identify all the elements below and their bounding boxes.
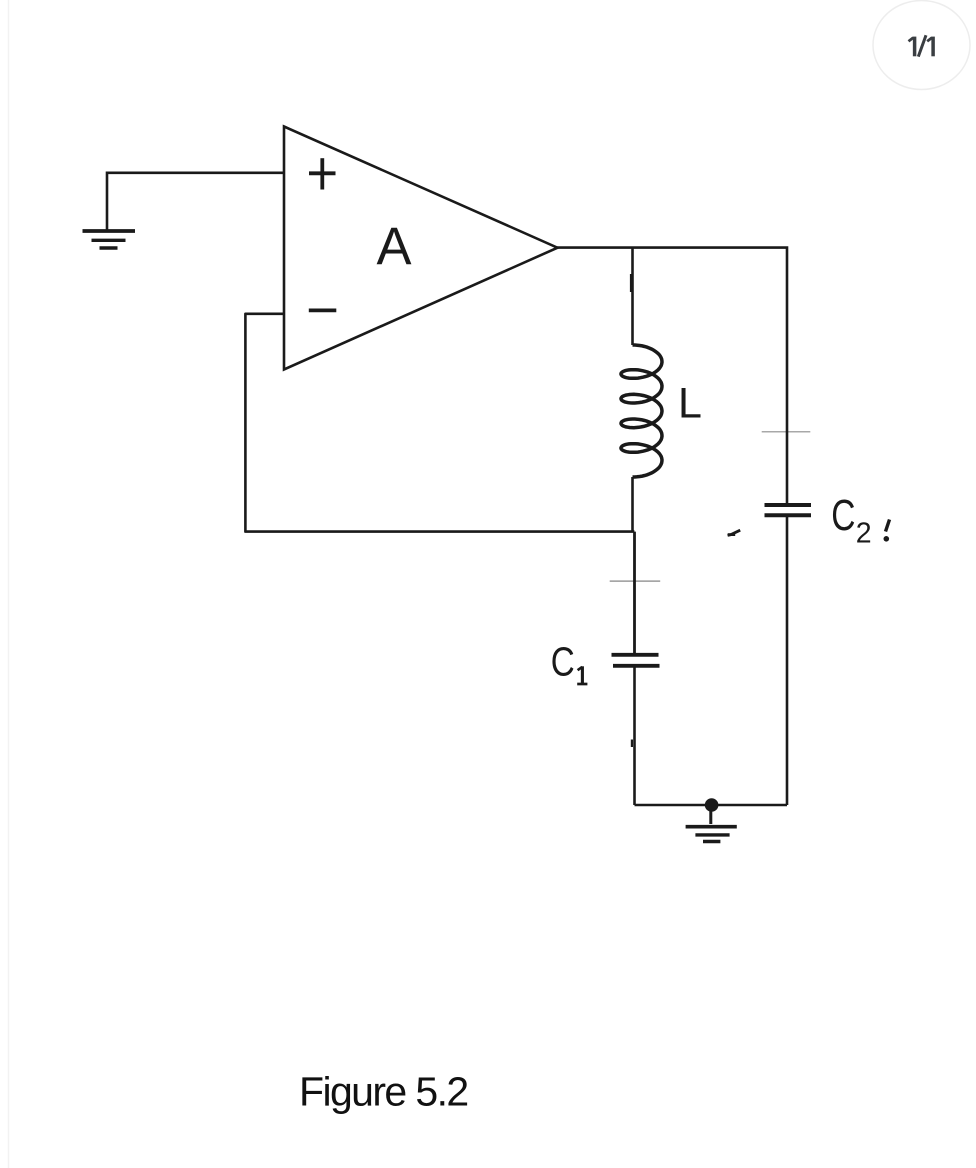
wire: output down to inductor — [631, 248, 634, 345]
wire: C2 bottom leg — [786, 516, 789, 806]
wire: - input + feedback left/bottom — [245, 314, 634, 532]
ground GND2 (bottom) — [686, 827, 737, 842]
inductor L coil — [621, 345, 662, 477]
scan artifact exclamation — [886, 520, 890, 532]
wire: output to top-right corner — [556, 248, 787, 505]
page counter badge 1/1 — [873, 1, 970, 90]
wire: + input horizontal — [107, 172, 284, 230]
scan artifact tick — [728, 530, 741, 535]
faint plate artifact above C1 — [610, 580, 661, 582]
faint plate artifact above C2 — [762, 431, 811, 433]
page edge shading — [8, 0, 10, 1168]
svg-text:A: A — [377, 217, 412, 276]
wire: node down to C1 top plate — [633, 532, 636, 653]
svg-text:Figure 5.2: Figure 5.2 — [299, 1069, 468, 1115]
wire overdraw artifact — [630, 274, 632, 292]
op-amp - pin label — [309, 308, 337, 312]
capacitor C1 plates — [612, 653, 659, 657]
svg-text:C: C — [831, 492, 855, 540]
wire: C1 bottom to ground rail — [633, 666, 636, 805]
op-amp + pin label — [309, 158, 336, 189]
capacitor C2 plates — [765, 503, 812, 507]
svg-text:C: C — [551, 638, 575, 684]
scan nub on C1 leg — [631, 740, 633, 748]
wire: bottom rail — [635, 804, 788, 807]
junction node dot — [705, 798, 719, 812]
ground GND1 (left) — [83, 231, 136, 248]
svg-text:L: L — [678, 380, 702, 428]
op-amp U1 triangle — [284, 127, 558, 370]
wire: inductor bottom to feedback node — [631, 477, 634, 532]
ground stub bottom — [709, 805, 712, 824]
svg-text:2: 2 — [856, 517, 872, 549]
